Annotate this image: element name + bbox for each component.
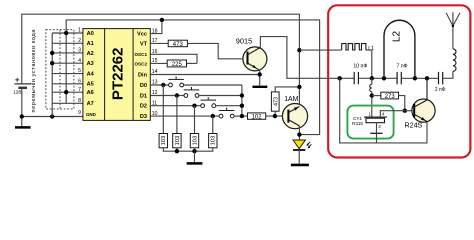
wire 103 bottom rail — [163, 148, 213, 151]
transistor Q1 9015 — [243, 47, 267, 71]
svg-text:GND: GND — [86, 112, 96, 117]
wire SB2 to collect column — [199, 95, 242, 97]
node jumper A0 to VCC bus — [64, 31, 68, 35]
node jumper A3 to GND bus — [50, 61, 54, 65]
node collect column D3 — [240, 114, 244, 118]
wire row A7 pin8 — [52, 102, 83, 104]
svg-text:R24S: R24S — [405, 122, 423, 130]
switch SB3 (D2) — [200, 97, 216, 107]
RF module red outline — [328, 5, 470, 157]
svg-text:A0: A0 — [87, 31, 94, 37]
svg-text:10 пФ: 10 пФ — [353, 63, 367, 69]
wire R7 to Q2 base — [266, 115, 283, 117]
svg-text:1: 1 — [78, 28, 81, 34]
node L2 left leg on RF rail — [382, 76, 386, 80]
svg-text:A2: A2 — [87, 51, 94, 57]
wire R9 to Q3 base node — [399, 96, 405, 111]
node antenna apex — [452, 25, 454, 27]
node D3 row to R6 — [211, 114, 215, 118]
node Q2 emitter / LED / rail B — [297, 132, 301, 136]
capacitor C1 10pF — [354, 72, 358, 84]
capacitor C3 2pF — [439, 72, 443, 84]
transistor Q3 R24S — [412, 78, 435, 122]
wire base node to Q3 — [405, 110, 412, 112]
wire RF rail segment C2-C3 — [401, 77, 438, 79]
node crystal/L1 tap on RF rail — [370, 76, 374, 80]
wire Q1 collector up-over-down into RF rail — [260, 37, 354, 79]
wire jumper GND bus — [51, 33, 53, 117]
wire pin10 D3 row — [150, 115, 219, 117]
wire pin16 OSC1 loop — [150, 54, 197, 63]
node Q3 base junction — [403, 109, 407, 113]
ground bar 103 resistors — [187, 162, 203, 165]
ground bar battery — [15, 126, 31, 129]
node RF rail left (Q1 collector) — [338, 76, 342, 80]
ground bar Q1 emitter — [253, 86, 268, 88]
svg-text:2 пФ: 2 пФ — [435, 87, 446, 93]
LED HL1 — [293, 140, 311, 150]
svg-text:2: 2 — [78, 38, 81, 44]
IC U1 inner divider left — [104, 29, 106, 121]
resistor R1 473 (VT to Q1 base) — [168, 40, 187, 48]
wire GND rail to pin 9 — [22, 116, 84, 118]
node jumper-bus gnd junction — [50, 114, 54, 118]
svg-text:OSC1: OSC1 — [134, 52, 147, 57]
wire pin15 OSC2 to R2 — [150, 62, 167, 64]
wire LED cathode to ground — [298, 151, 300, 164]
transistor Q2 1AM — [282, 104, 307, 129]
wire SB4 to R7 102 — [234, 115, 247, 117]
wire pin11 D2 row — [150, 105, 200, 107]
capacitor C2 7pF — [397, 72, 401, 84]
wire R2 to OSC1 loop — [187, 62, 198, 64]
node jumper A2 to GND bus — [50, 51, 54, 55]
node 103 rail R4 — [175, 149, 179, 153]
svg-text:273: 273 — [385, 94, 396, 100]
svg-text:473: 473 — [173, 42, 184, 48]
wire node to R9 — [372, 95, 381, 97]
wire row A6 pin7 — [52, 91, 83, 93]
wire R5 drop — [194, 106, 196, 134]
wire crystal pin4 to base node — [380, 111, 405, 117]
node Q3 collector on RF rail — [425, 76, 429, 80]
svg-text:7 пФ: 7 пФ — [397, 63, 408, 69]
wire R6 drop — [212, 116, 214, 133]
wire row A0 pin1 — [52, 32, 83, 34]
switch SB1 (D0) — [168, 77, 184, 87]
wire row A1 pin2 — [52, 42, 83, 44]
svg-text:103: 103 — [211, 136, 217, 146]
svg-text:103: 103 — [192, 136, 198, 146]
resistor R7 102 — [248, 113, 266, 121]
node R8 on +12 leg — [297, 85, 301, 89]
svg-text:3: 3 — [78, 48, 81, 54]
svg-text:7: 7 — [78, 87, 81, 93]
inductor L1 — [342, 44, 366, 50]
wire VCC rail B: jumper bus across to PT2262 VCC and down to Q2 emitter node — [66, 20, 319, 135]
svg-text:D3: D3 — [140, 114, 147, 120]
svg-text:6: 6 — [78, 78, 81, 84]
crystal module green outline — [347, 106, 393, 139]
node pin18 tap on rail B — [160, 18, 164, 22]
wire R4 drop — [176, 96, 178, 134]
switch SB4 (D3) — [219, 108, 235, 118]
node Q2 base junction — [273, 114, 277, 118]
crystal CY1 R315 — [364, 117, 387, 133]
wire +12 branch to L1 — [299, 49, 341, 51]
node 103 rail R5 — [192, 149, 196, 153]
node D0 row to R3 — [161, 83, 165, 87]
node D2 row to R5 — [192, 104, 196, 108]
resistor R4 103 — [173, 134, 181, 148]
svg-text:L1: L1 — [368, 46, 374, 52]
svg-text:A6: A6 — [87, 90, 94, 96]
wire crystal pin3 to RF ground — [376, 133, 378, 143]
svg-text:Vcc: Vcc — [137, 32, 147, 38]
wire Q1 emitter to ground — [259, 70, 261, 85]
wire R8 bottom to base node — [274, 111, 276, 116]
wire R1 to Q1 base — [187, 43, 243, 58]
wire row A2 pin3 — [52, 52, 83, 54]
inductor L2 arch — [384, 20, 415, 78]
node L2 right leg on RF rail — [413, 76, 417, 80]
wire SB1 to collect column — [184, 84, 242, 86]
svg-text:12В: 12В — [13, 89, 21, 94]
resistor R9 273 — [381, 92, 399, 100]
antenna WA1 — [446, 12, 460, 26]
svg-text:5: 5 — [78, 68, 81, 74]
resistor R2 225 (OSC1-OSC2) — [167, 60, 186, 68]
svg-text:4: 4 — [78, 58, 81, 64]
svg-text:103: 103 — [175, 136, 181, 146]
svg-text:103: 103 — [161, 136, 167, 146]
svg-text:D2: D2 — [140, 104, 147, 110]
svg-text:D1: D1 — [140, 93, 147, 99]
resistor R6 103 — [209, 134, 217, 148]
node jumper A6 to VCC bus — [64, 90, 68, 94]
svg-text:PT2262: PT2262 — [109, 48, 126, 101]
jumper block dashed box — [46, 30, 74, 109]
wire jumper VCC bus lower part — [65, 33, 67, 103]
wire coil to antenna — [452, 26, 454, 49]
svg-text:VT: VT — [140, 41, 148, 47]
wire +12V rail A: battery plus up, across top, down to Q2 collector — [22, 14, 300, 106]
node 273 tap on crystal pin1 — [370, 93, 374, 97]
resistor R8 473 vertical (to Q2 base) — [271, 92, 279, 111]
wire pin13 D0 row — [150, 84, 168, 86]
resistor R5 103 — [190, 134, 198, 148]
node Q1 emitter / Din — [258, 72, 262, 76]
IC U1 inner divider right — [132, 29, 134, 121]
svg-text:A1: A1 — [87, 41, 94, 47]
wire Q2 emitter down to LED node — [298, 126, 300, 140]
wire pin17 VT to R1 — [150, 42, 168, 44]
svg-text:A7: A7 — [87, 101, 94, 107]
jumper block dashed divider — [59, 30, 61, 109]
svg-text:8: 8 — [78, 98, 81, 104]
wire L1 to RF rail — [366, 50, 372, 78]
wire battery minus down — [21, 88, 23, 126]
node +12 branch to L1 — [297, 48, 301, 52]
wire row A5 pin6 — [52, 83, 83, 85]
svg-text:9: 9 — [78, 110, 81, 116]
wire SB3 to collect column — [216, 105, 242, 107]
svg-text:473: 473 — [273, 97, 279, 106]
node collect column D1 — [240, 93, 244, 97]
node D1 row to R4 — [175, 93, 179, 97]
inductor L3 antenna coil — [453, 49, 456, 72]
wire RF rail segment C1-C2 — [358, 77, 397, 79]
svg-text:Din: Din — [138, 72, 148, 78]
switch SB2 (D1) — [184, 87, 200, 97]
svg-text:1AM: 1AM — [284, 96, 298, 103]
wire 103 rail to ground — [194, 151, 196, 162]
wire pin18 VCC to rail B — [150, 20, 162, 34]
svg-text:R315: R315 — [352, 121, 363, 126]
node battery-gnd junction — [20, 114, 24, 118]
IC U1 PT2262 body — [83, 29, 150, 121]
wire crystal pin1 from RF rail — [371, 78, 373, 84]
wire row A3 pin4 — [52, 62, 83, 64]
node collect column D2 — [240, 104, 244, 108]
svg-text:102: 102 — [252, 115, 263, 121]
svg-text:9015: 9015 — [236, 37, 252, 46]
svg-text:перемычки установки кода: перемычки установки кода — [31, 29, 37, 113]
wire R8 top to +12 leg — [275, 87, 299, 92]
svg-text:225: 225 — [172, 62, 183, 68]
wire switch collect column — [241, 85, 243, 116]
wire RF ground U path (rail left to Q3 emitter) — [340, 78, 427, 143]
svg-text:D0: D0 — [140, 83, 147, 89]
svg-text:L2: L2 — [392, 31, 403, 43]
wire row A4 pin5 — [52, 73, 83, 75]
resistor R3 103 — [159, 134, 167, 148]
wire RF rail to antenna coil — [443, 71, 453, 78]
svg-text:A4: A4 — [87, 72, 95, 78]
svg-text:A3: A3 — [87, 61, 94, 67]
wire pin12 D1 row — [150, 95, 184, 97]
svg-text:A5: A5 — [87, 82, 94, 88]
ground bar LED — [291, 164, 309, 167]
wire R3 drop — [162, 85, 164, 134]
svg-text:OSC2: OSC2 — [134, 61, 147, 66]
battery GB1 12V — [15, 78, 32, 88]
wire pin14 Din to Q1 emitter node — [150, 74, 259, 76]
